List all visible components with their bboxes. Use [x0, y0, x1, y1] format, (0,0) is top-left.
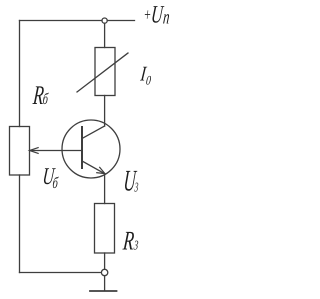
- resistor Rэ body: [95, 204, 115, 254]
- transistor VT1 collector lead: [82, 126, 105, 139]
- thermistor I0 body: [95, 48, 115, 96]
- wire emitter vertical: [104, 174, 106, 204]
- node at +Up junction: [102, 18, 107, 23]
- thermistor I0 diagonal stroke: [77, 53, 128, 92]
- potentiometer Rб wiper arrowhead: [30, 147, 39, 153]
- label I0: [138, 62, 153, 87]
- wire Rэ to bottom node: [104, 253, 106, 269]
- label Rэ: [121, 226, 140, 256]
- transistor VT1 emitter lead: [82, 161, 105, 174]
- wire node to ground stem: [104, 276, 106, 291]
- label Uб: [41, 164, 60, 192]
- wire thermistor to collector: [104, 96, 106, 127]
- wire base from potentiometer wiper: [31, 150, 82, 152]
- transistor VT1 base bar: [81, 127, 83, 168]
- wire left vertical lower: [19, 175, 21, 273]
- wire bottom rail: [20, 272, 102, 274]
- transistor VT1 emitter arrowhead: [96, 167, 105, 174]
- label +Uп: [142, 0, 171, 28]
- ground symbol bar: [90, 290, 117, 292]
- wire left vertical upper: [19, 21, 21, 127]
- wire top rail: [20, 20, 135, 22]
- label Rб: [31, 80, 50, 110]
- potentiometer Rб body: [10, 127, 30, 176]
- node at ground junction: [101, 269, 107, 275]
- label Uэ: [122, 165, 140, 198]
- wire +Up branch vertical: [104, 21, 106, 48]
- transistor VT1 circle: [62, 120, 120, 178]
